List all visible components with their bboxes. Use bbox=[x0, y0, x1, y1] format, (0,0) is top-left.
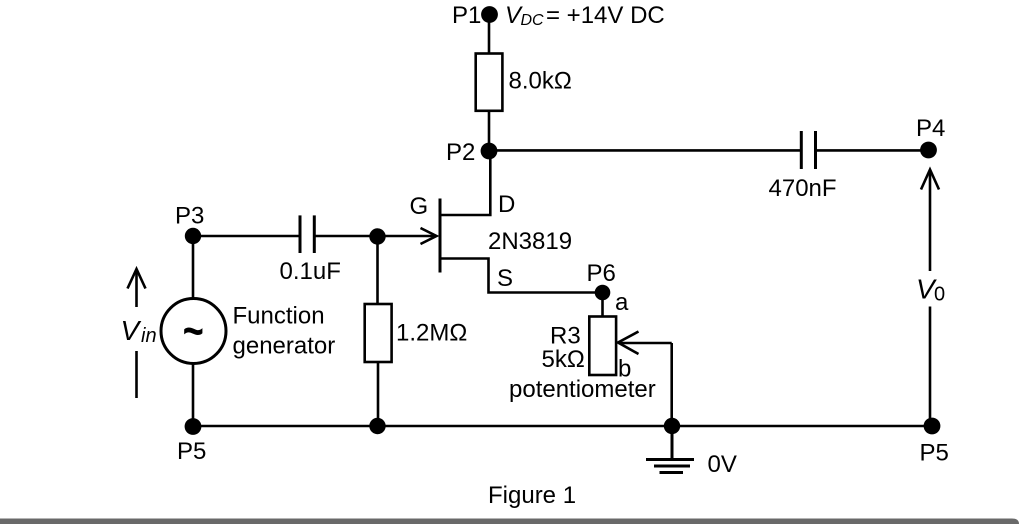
svg-text:0.1uF: 0.1uF bbox=[280, 258, 341, 285]
node P5 left bbox=[185, 418, 202, 435]
svg-text:2N3819: 2N3819 bbox=[488, 228, 572, 255]
capacitor C2 470nF bbox=[801, 131, 815, 169]
svg-text:G: G bbox=[410, 193, 429, 220]
Vo arrow bbox=[921, 170, 939, 427]
wire bottom rail P5 left to P5 right bbox=[193, 425, 932, 428]
node ground junction bbox=[664, 418, 680, 434]
svg-text:P4: P4 bbox=[916, 115, 945, 142]
source V1 function generator circle bbox=[161, 299, 226, 364]
node rail junction below R2 bbox=[369, 418, 385, 434]
svg-text:= +14V DC: = +14V DC bbox=[546, 2, 665, 29]
svg-text:P2: P2 bbox=[446, 139, 475, 166]
ground bbox=[646, 426, 694, 473]
node P4 bbox=[920, 142, 937, 159]
label Vin bbox=[121, 315, 157, 347]
node P3 bbox=[185, 228, 201, 244]
svg-text:P3: P3 bbox=[175, 203, 204, 230]
node P2 bbox=[481, 143, 498, 160]
svg-text:a: a bbox=[615, 289, 629, 316]
potentiometer R3 wiper arrow bbox=[618, 332, 672, 427]
resistor R2 1.2M bbox=[365, 304, 392, 362]
svg-text:8.0kΩ: 8.0kΩ bbox=[509, 68, 572, 95]
wire C2 right plate to P4 bbox=[816, 149, 929, 152]
svg-text:P5: P5 bbox=[920, 440, 949, 467]
svg-text:Figure 1: Figure 1 bbox=[488, 482, 576, 509]
wire P2 to C2 left plate bbox=[489, 149, 801, 152]
wire P3 to source top bbox=[192, 236, 195, 299]
svg-text:P6: P6 bbox=[587, 260, 616, 287]
svg-text:5kΩ: 5kΩ bbox=[542, 346, 585, 373]
svg-text:Function: Function bbox=[233, 303, 325, 330]
svg-text:in: in bbox=[141, 325, 157, 347]
node gate junction bbox=[369, 228, 385, 244]
wire C1 right plate to gate node bbox=[314, 235, 377, 238]
potentiometer R3 body bbox=[589, 317, 616, 376]
capacitor C1 0.1uF bbox=[300, 215, 314, 253]
node P5 right bbox=[924, 418, 941, 435]
svg-text:P5: P5 bbox=[177, 438, 206, 465]
node P6 bbox=[595, 285, 611, 301]
wire source bottom to P5 left bbox=[192, 364, 195, 427]
svg-text:0V: 0V bbox=[708, 451, 737, 478]
wire R1 bottom to P2 bbox=[488, 111, 491, 151]
svg-text:~: ~ bbox=[183, 304, 204, 357]
wire P1 to R1 top bbox=[488, 15, 491, 54]
svg-text:V: V bbox=[121, 315, 142, 346]
label Vo bbox=[916, 274, 945, 306]
resistor R1 8.0k bbox=[476, 54, 503, 111]
label VDC = +14V DC bbox=[505, 2, 665, 29]
wire gate node down to R2 bbox=[376, 236, 379, 304]
Vin arrow bbox=[128, 269, 146, 398]
svg-text:S: S bbox=[497, 265, 513, 292]
window edge bar bbox=[0, 519, 1019, 524]
svg-text:1.2MΩ: 1.2MΩ bbox=[396, 320, 467, 347]
wire P6 to R3 top bbox=[601, 293, 604, 317]
svg-text:D: D bbox=[498, 191, 515, 218]
svg-text:0: 0 bbox=[934, 284, 945, 306]
svg-text:DC: DC bbox=[521, 12, 545, 29]
svg-text:potentiometer: potentiometer bbox=[509, 376, 656, 403]
transistor Q1 2N3819 gate bar bbox=[439, 199, 442, 273]
svg-text:470nF: 470nF bbox=[769, 175, 837, 202]
svg-text:generator: generator bbox=[233, 333, 336, 360]
label Function generator bbox=[233, 303, 336, 360]
svg-text:P1: P1 bbox=[452, 2, 481, 29]
wire P3 to C1 left plate bbox=[193, 235, 300, 238]
wire drain vertical P2 to JFET drain stub bbox=[441, 151, 490, 215]
wire R2 bottom to rail bbox=[377, 362, 380, 426]
wire source stub to P6 bbox=[441, 259, 603, 293]
node P1 bbox=[481, 6, 498, 23]
source V1 tilde bbox=[183, 304, 204, 357]
wire gate node to gate with arrow bbox=[378, 228, 437, 244]
